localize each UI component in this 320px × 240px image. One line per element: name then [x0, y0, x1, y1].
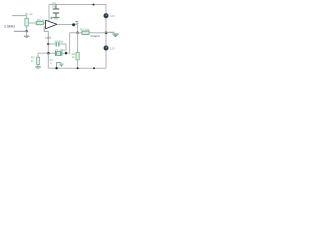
ground below C3: [53, 16, 60, 18]
wire R1 wiper to R5: [28, 22, 36, 24]
svg-text:1.0kHz: 1.0kHz: [4, 25, 15, 29]
crystal loop left edge: [47, 44, 49, 53]
capacitor C3 bottom lead: [55, 13, 57, 17]
wire output load drop: [77, 33, 79, 53]
node loop top-left: [47, 43, 49, 45]
node ground bottom: [55, 67, 57, 69]
capacitor C3 leads: [55, 5, 57, 9]
crystal loop right edge: [65, 44, 67, 53]
wire output drop: [77, 25, 79, 33]
ground below R1: [26, 31, 28, 36]
wire feedback left drop: [69, 33, 71, 53]
crystal X1: [55, 51, 61, 56]
svg-text:12V: 12V: [110, 47, 115, 51]
wire cap branch: [48, 43, 66, 45]
wire op-amp V+ supply drop: [48, 5, 50, 22]
resistor R4: [76, 52, 79, 60]
wire loop bottom-left drop: [47, 53, 49, 68]
wire R5 to op-amp inverting input: [43, 22, 45, 24]
op-amp U1: [46, 20, 57, 29]
svg-text:C1 30p: C1 30p: [54, 39, 63, 43]
ground right mid: [112, 34, 118, 37]
svg-text:Output: Output: [91, 34, 100, 38]
node output / feedback: [76, 32, 79, 35]
wire top rail V+: [49, 4, 106, 6]
wire loop to R2: [38, 52, 48, 54]
svg-text:12V: 12V: [110, 14, 115, 18]
source V1: [104, 13, 109, 18]
resistor R3: [82, 31, 89, 34]
wire feedback horizontal: [70, 32, 106, 34]
wire op-amp output: [57, 24, 78, 26]
node bottom rail junction: [93, 67, 95, 69]
svg-text:X1 10M: X1 10M: [55, 48, 65, 52]
wire input bottom: [14, 30, 27, 32]
svg-text:Lab1: Lab1: [45, 36, 52, 40]
wire R1 bottom lead: [26, 26, 28, 31]
probe on output: [72, 23, 75, 26]
svg-text:R5 1k: R5 1k: [37, 18, 45, 22]
wire R2 top lead: [37, 53, 39, 57]
source V2: [104, 46, 109, 51]
node top rail junction: [93, 4, 95, 6]
wire bottom rail: [48, 67, 106, 69]
right rail: [105, 5, 107, 69]
node mid supply: [105, 32, 108, 35]
capacitor C1 plates: [56, 42, 59, 47]
wire R4 bottom lead: [77, 60, 79, 68]
node loop bottom-left: [47, 52, 50, 55]
potentiometer R1: [25, 18, 28, 26]
svg-text:R3 10k: R3 10k: [80, 27, 90, 31]
wire input top: [12, 16, 27, 19]
svg-text:30p: 30p: [52, 5, 57, 9]
ground on bottom rail: [57, 63, 62, 69]
node loop bottom-right: [65, 52, 67, 54]
capacitor C3 plates: [53, 9, 59, 13]
wire ground stub: [106, 31, 115, 33]
resistor R5: [36, 22, 43, 25]
wire R2 bottom lead: [37, 64, 39, 66]
wire crystal branch: [48, 52, 69, 54]
ground below R2: [35, 66, 41, 68]
op-amp V+ plus mark: [50, 17, 53, 20]
op-amp noninverting input route: [44, 27, 48, 44]
node R1 bottom: [25, 30, 27, 32]
node R4 bottom: [77, 67, 79, 69]
svg-text:R1 1k: R1 1k: [25, 12, 33, 16]
resistor R2: [36, 57, 39, 64]
